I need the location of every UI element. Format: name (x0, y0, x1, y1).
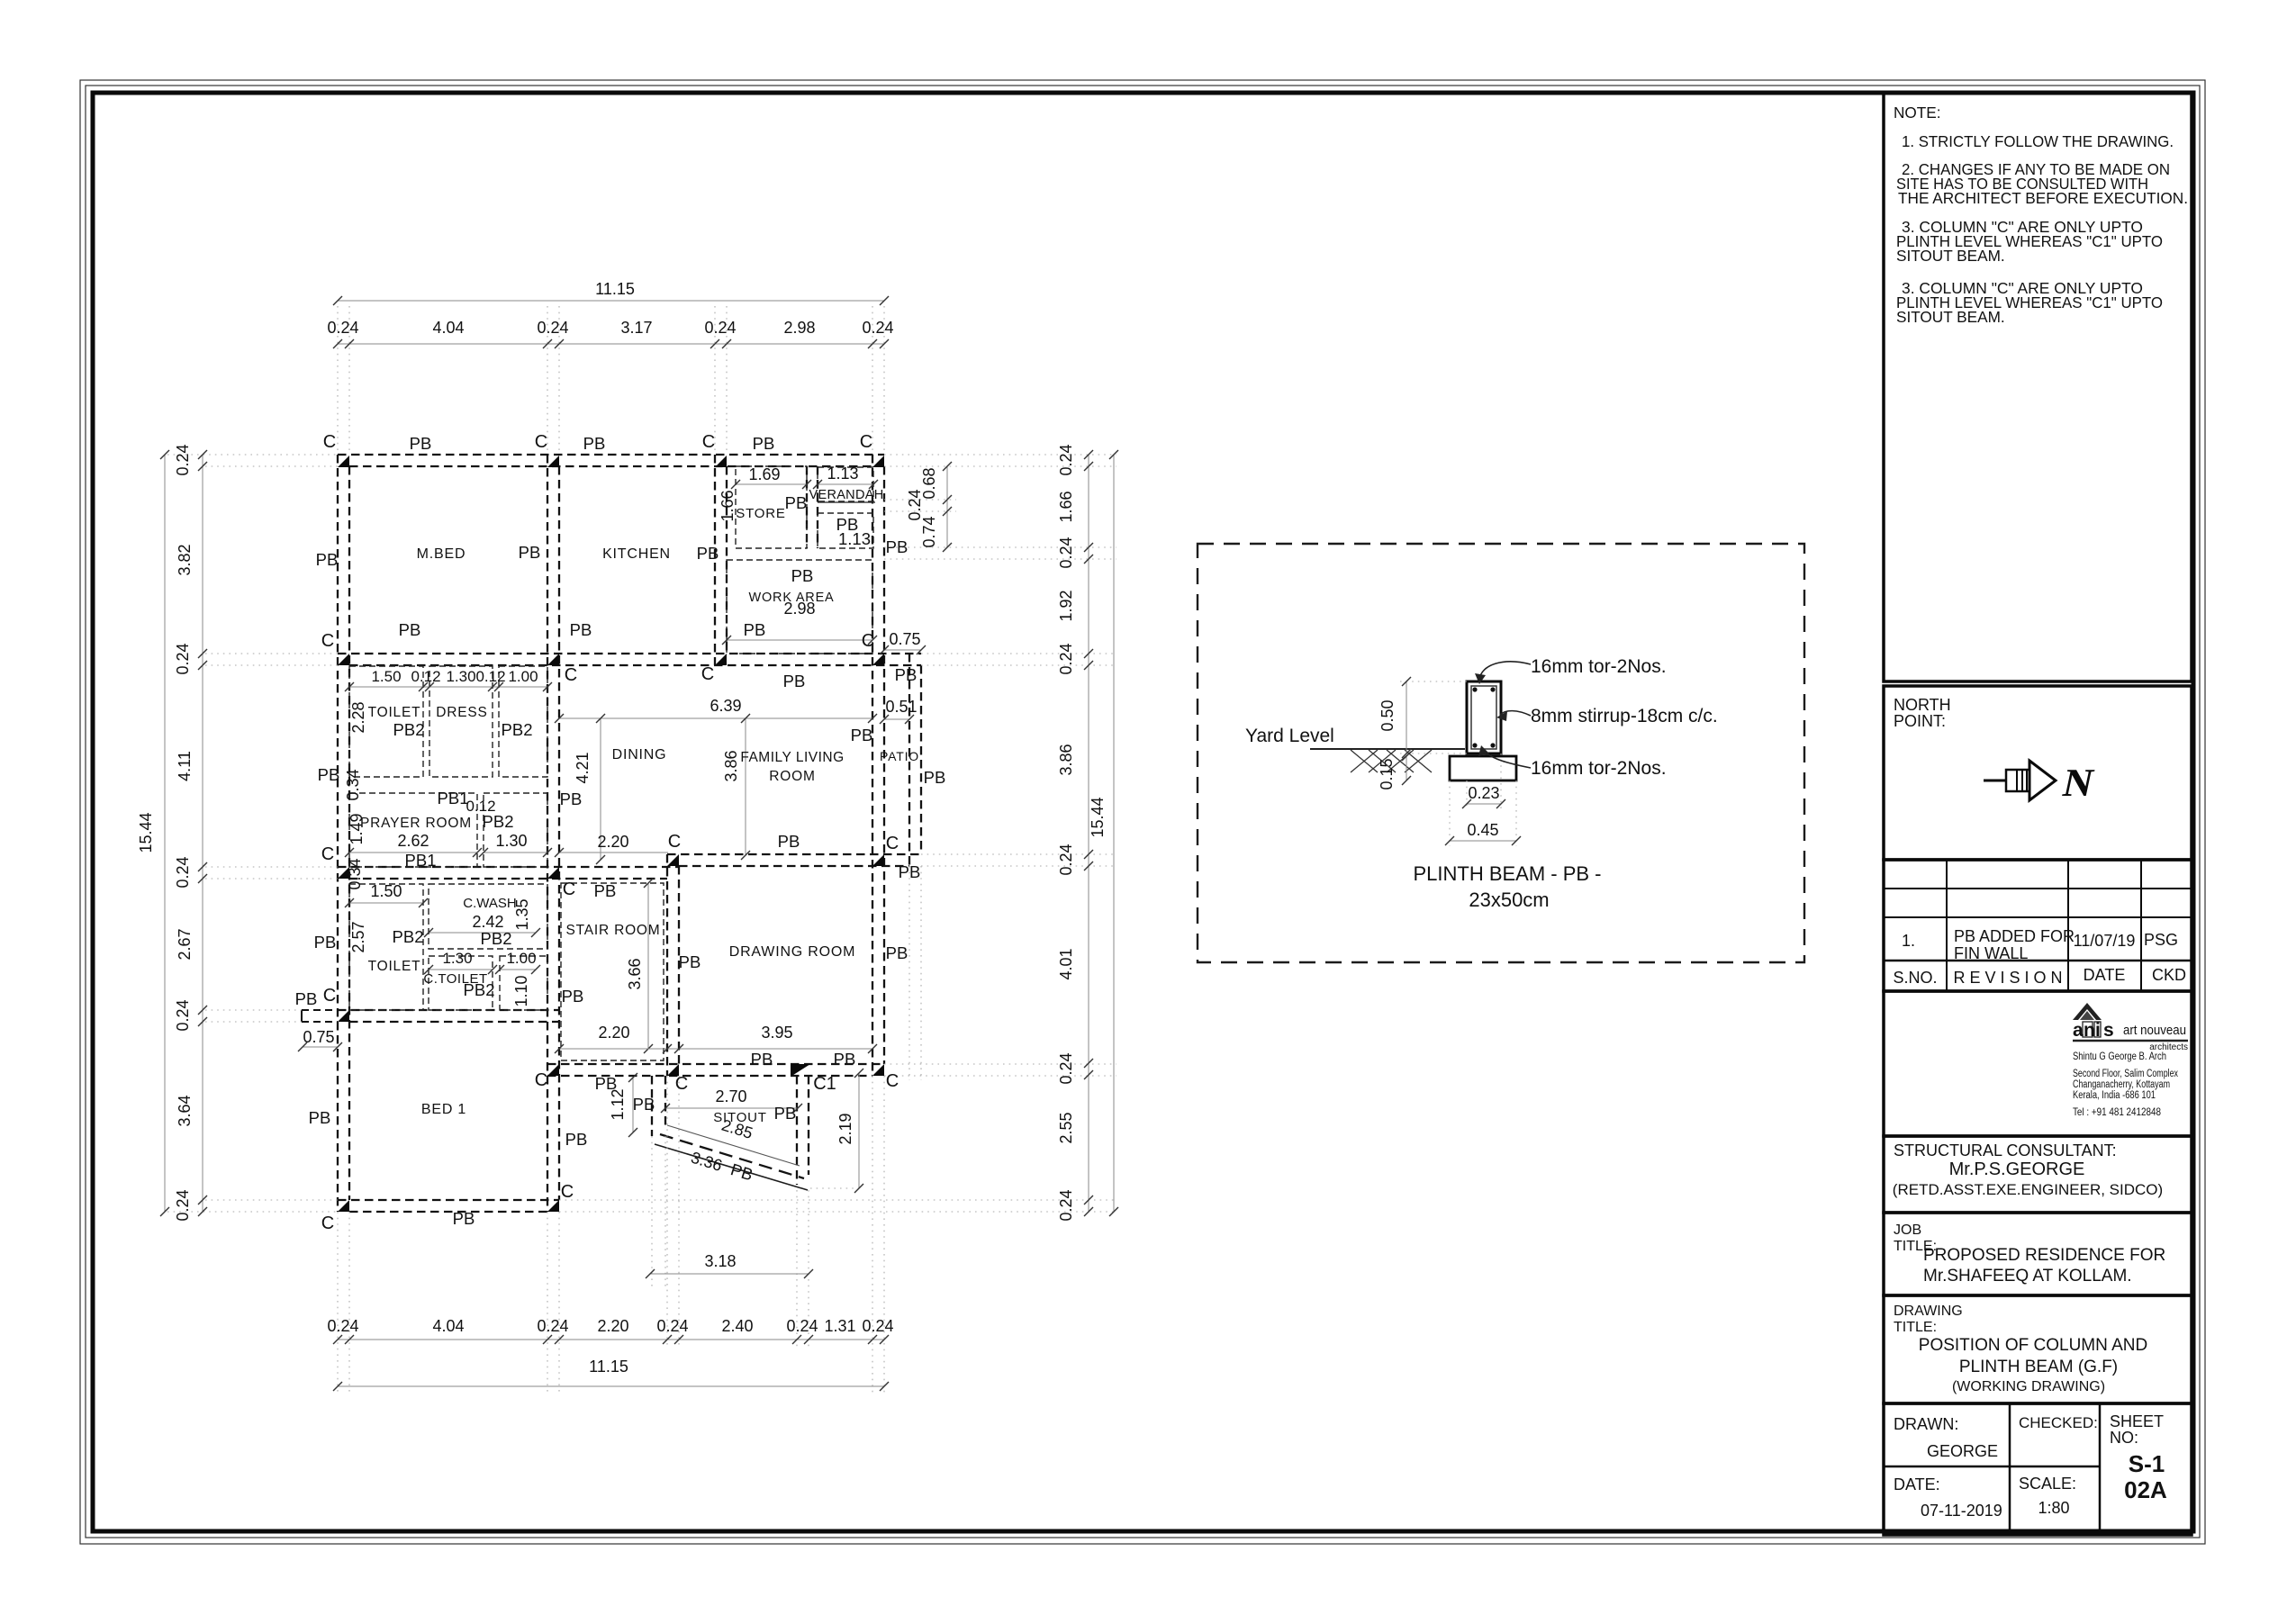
svg-text:0.75: 0.75 (303, 1028, 334, 1046)
svg-text:PB: PB (594, 881, 617, 900)
svg-text:FAMILY LIVING: FAMILY LIVING (740, 750, 844, 765)
svg-text:DRESS: DRESS (436, 705, 487, 720)
svg-text:DRAWN:: DRAWN: (1894, 1415, 1958, 1433)
column C grid B1 (547, 456, 559, 467)
svg-text:0.24: 0.24 (786, 1317, 818, 1335)
toilet2 inner box (349, 884, 423, 1010)
svg-text:PB: PB (851, 726, 873, 744)
column C grid A4 (338, 1010, 349, 1022)
grid dotted bottom wall y (205, 1199, 338, 1201)
wall left outer (337, 455, 339, 1212)
svg-text:PB: PB (410, 434, 432, 453)
svg-text:0.24: 0.24 (656, 1317, 688, 1335)
cwash inner box (429, 884, 547, 949)
leader 8mm stirrup (1500, 711, 1531, 716)
dim prayer room (349, 852, 477, 853)
svg-text:PB: PB (834, 1050, 856, 1069)
svg-text:PB: PB (895, 665, 918, 684)
svg-text:1.13: 1.13 (827, 465, 858, 483)
svg-text:15.44: 15.44 (1089, 797, 1107, 837)
logo anis roof (2073, 1003, 2102, 1020)
svg-text:C: C (321, 844, 334, 864)
dim stair 3.66 (647, 883, 649, 1049)
svg-text:1.10: 1.10 (512, 975, 530, 1006)
grid dotted patio x (908, 866, 910, 1080)
svg-text:2.42: 2.42 (472, 913, 503, 931)
svg-text:Yard Level: Yard Level (1245, 726, 1334, 746)
svg-text:0.50: 0.50 (1379, 699, 1397, 731)
svg-text:3.66: 3.66 (626, 958, 644, 989)
stair inner dashed box (561, 883, 664, 1060)
ctoilet inner box (429, 956, 493, 1010)
dim sitout 1.12 (632, 1078, 634, 1132)
svg-text:4.11: 4.11 (176, 751, 194, 781)
svg-text:C: C (535, 1070, 547, 1090)
dim work area 2.98 (727, 639, 872, 641)
svg-text:art nouveau: art nouveau (2123, 1023, 2186, 1038)
dim 0.50 beam (1400, 681, 1467, 682)
svg-text:0.23: 0.23 (1468, 784, 1499, 802)
column C grid A3 (338, 867, 349, 879)
svg-text:n: n (2084, 1020, 2095, 1041)
svg-text:Kerala, India -686 101: Kerala, India -686 101 (2073, 1090, 2156, 1101)
svg-text:C1: C1 (813, 1074, 836, 1094)
svg-text:02A: 02A (2124, 1476, 2167, 1503)
svg-text:0.24: 0.24 (1057, 844, 1075, 875)
svg-text:M.BED: M.BED (417, 546, 466, 562)
svg-text:0.24: 0.24 (174, 1189, 192, 1221)
svg-text:PB: PB (791, 566, 814, 585)
wall kitchen right vertical (714, 455, 716, 665)
svg-text:GEORGE: GEORGE (1927, 1442, 1998, 1460)
svg-text:DRAWING: DRAWING (1894, 1304, 1963, 1319)
svg-text:11.15: 11.15 (595, 280, 635, 298)
svg-text:0.24: 0.24 (1057, 1052, 1075, 1084)
leader 16mm bottom (1484, 750, 1531, 768)
column C grid C2 (715, 654, 727, 665)
svg-text:0.24: 0.24 (1057, 643, 1075, 674)
dress right small box (499, 666, 547, 777)
svg-text:0.15: 0.15 (1378, 758, 1396, 789)
svg-text:BED 1: BED 1 (421, 1102, 466, 1117)
svg-text:3.18: 3.18 (704, 1252, 736, 1270)
svg-text:C: C (702, 432, 715, 452)
dim 0.45 footing width (1449, 780, 1451, 846)
dim row2 partitions (349, 686, 547, 688)
dim verandah sub chain (946, 466, 948, 547)
svg-text:SITOUT: SITOUT (713, 1110, 767, 1125)
grid dotted stair-left x (547, 306, 548, 455)
wall bed1 bottom outer (338, 1199, 559, 1201)
svg-text:SITOUT BEAM.: SITOUT BEAM. (1896, 308, 2005, 326)
svg-text:23x50cm: 23x50cm (1469, 889, 1549, 911)
column C grid E3 (667, 854, 679, 866)
verandah top box (818, 467, 873, 501)
svg-text:0.24: 0.24 (174, 444, 192, 475)
svg-text:WORK AREA: WORK AREA (748, 591, 834, 605)
panel north box (1884, 686, 2192, 860)
svg-text:11.15: 11.15 (589, 1358, 628, 1376)
svg-text:PB2: PB2 (502, 720, 533, 739)
column C grid D1 (872, 456, 884, 467)
wall drawing-room bottom / sitout top (547, 1063, 884, 1065)
svg-text:PB: PB (309, 1108, 331, 1127)
svg-text:0.24: 0.24 (537, 1317, 568, 1335)
svg-text:PB: PB (679, 952, 701, 971)
svg-text:C: C (323, 986, 336, 1006)
svg-text:11/07/19: 11/07/19 (2074, 932, 2136, 950)
yard level line (1310, 748, 1465, 750)
svg-text:C: C (675, 1074, 688, 1094)
svg-text:Changanacherry, Kottayam: Changanacherry, Kottayam (2073, 1079, 2170, 1090)
svg-text:C: C (321, 631, 334, 651)
svg-text:C: C (886, 1071, 899, 1091)
svg-text:s: s (2103, 1020, 2114, 1041)
wall top outer (M.BED/KITCHEN/VERANDAH) (338, 454, 884, 456)
svg-text:SITOUT BEAM.: SITOUT BEAM. (1896, 247, 2005, 265)
svg-text:0.68: 0.68 (920, 467, 938, 499)
wall row2 (below M.BED/KITCHEN to PATIO) (338, 653, 921, 654)
dim cwash (429, 932, 536, 934)
svg-text:1.31: 1.31 (824, 1317, 855, 1335)
dim 3.18 sitout bottom (650, 1273, 809, 1275)
prayer room inner box (349, 793, 477, 867)
svg-text:PB2: PB2 (481, 929, 512, 948)
dim chain left (202, 455, 203, 1212)
svg-text:2.19: 2.19 (836, 1113, 854, 1144)
dim 4.21 dining (600, 718, 601, 860)
svg-text:PB: PB (633, 1095, 655, 1114)
grid dotted kitchen-right x (714, 306, 716, 455)
svg-text:4.04: 4.04 (432, 319, 464, 337)
svg-text:4.21: 4.21 (574, 752, 592, 783)
svg-text:THE ARCHITECT BEFORE EXECUTION: THE ARCHITECT BEFORE EXECUTION. (1898, 189, 2188, 207)
svg-text:2.20: 2.20 (598, 1024, 629, 1042)
svg-text:0.24: 0.24 (1057, 537, 1075, 568)
svg-text:C: C (565, 665, 577, 685)
svg-text:PB2: PB2 (464, 980, 495, 999)
svg-text:PB: PB (314, 933, 337, 952)
svg-text:PB2: PB2 (393, 927, 424, 946)
svg-text:Tel : +91 481 2412848: Tel : +91 481 2412848 (2073, 1105, 2161, 1118)
svg-text:3.95: 3.95 (761, 1024, 792, 1042)
svg-text:0.51: 0.51 (885, 698, 917, 716)
svg-text:PB: PB (785, 493, 808, 512)
svg-text:PATIO: PATIO (880, 749, 919, 763)
dim chain bottom (338, 1339, 884, 1340)
svg-text:2.57: 2.57 (349, 921, 367, 952)
svg-text:PB: PB (753, 434, 775, 453)
wall family/drawing divider (667, 853, 921, 855)
grid dotted verandah sub y (884, 499, 956, 501)
svg-text:0.75: 0.75 (889, 630, 920, 648)
svg-text:STRUCTURAL CONSULTANT:: STRUCTURAL CONSULTANT: (1894, 1141, 2117, 1159)
svg-text:0.24: 0.24 (327, 1317, 358, 1335)
svg-text:CHECKED:: CHECKED: (2019, 1414, 2098, 1431)
svg-text:16mm tor-2Nos.: 16mm tor-2Nos. (1531, 656, 1667, 677)
svg-text:TOILET: TOILET (368, 959, 421, 974)
plinth beam section outline (1467, 681, 1501, 753)
svg-text:0.24: 0.24 (1057, 1189, 1075, 1221)
wall patio right vertical (908, 654, 910, 866)
svg-text:NOTE:: NOTE: (1894, 104, 1941, 122)
svg-text:POINT:: POINT: (1894, 712, 1946, 730)
revision table frame (1884, 860, 2192, 991)
grid dotted drawing-left x bottom (666, 1076, 668, 1347)
svg-text:S.NO.: S.NO. (1893, 969, 1937, 987)
svg-text:ROOM: ROOM (769, 769, 815, 784)
svg-text:SCALE:: SCALE: (2019, 1475, 2076, 1493)
wall sitout diagonal (667, 1125, 800, 1166)
store inner dashed box (736, 466, 807, 548)
dim ctoilet (429, 969, 493, 970)
bottom table frame (1884, 1403, 2192, 1535)
svg-text:0.24: 0.24 (1057, 444, 1075, 475)
svg-text:1.13: 1.13 (838, 529, 871, 548)
svg-text:PB: PB (744, 620, 766, 639)
leader 16mm top (1479, 662, 1531, 680)
svg-text:C: C (701, 664, 714, 684)
svg-text:0.74: 0.74 (920, 516, 938, 547)
svg-text:C: C (860, 432, 872, 452)
dim 0.75 patio top (884, 649, 921, 651)
svg-text:DRAWING ROOM: DRAWING ROOM (729, 944, 856, 960)
plinth beam rebar dots (1472, 687, 1477, 691)
svg-text:Shintu G George B. Arch: Shintu G George B. Arch (2073, 1050, 2166, 1062)
column C1 sitout (791, 1064, 810, 1077)
wall mbed-kitchen / stair-left vertical (547, 455, 548, 1212)
dim chain top (338, 343, 884, 345)
svg-text:0.12: 0.12 (411, 668, 440, 685)
svg-text:1.30: 1.30 (442, 950, 472, 967)
svg-text:2.70: 2.70 (715, 1087, 746, 1105)
svg-text:JOB: JOB (1894, 1223, 1921, 1238)
svg-text:PB1: PB1 (405, 851, 437, 870)
svg-text:4.04: 4.04 (432, 1317, 464, 1335)
svg-text:CKD: CKD (2152, 966, 2186, 984)
column C grid D2 (872, 654, 884, 665)
column C grid A6 (338, 1200, 349, 1212)
svg-text:PB: PB (774, 1104, 797, 1123)
svg-text:PRAYER ROOM: PRAYER ROOM (360, 816, 472, 831)
column C grid A1 (338, 456, 349, 467)
svg-text:a: a (2073, 1020, 2084, 1041)
svg-text:S-1: S-1 (2129, 1450, 2165, 1477)
ctoilet right box (500, 956, 547, 1010)
svg-text:NORTH: NORTH (1894, 696, 1951, 714)
toilet1 inner box (349, 666, 423, 777)
revision table lines (1884, 888, 2192, 889)
svg-text:2.20: 2.20 (597, 1317, 628, 1335)
svg-text:VERANDAH: VERANDAH (809, 488, 884, 502)
soil hatch marks (1351, 750, 1378, 772)
svg-text:0.24: 0.24 (862, 319, 893, 337)
svg-text:PB: PB (778, 832, 800, 851)
wall sitout right (C1) (796, 1076, 798, 1185)
wall bump left (0.75 nib) (302, 1009, 338, 1011)
dim stair 2.20 / drawing 3.95 (559, 1048, 872, 1050)
work area inner dashed box (727, 560, 872, 654)
svg-text:0.24: 0.24 (327, 319, 358, 337)
plinth detail dashed border (1198, 544, 1804, 962)
prayer PB2 box (484, 793, 547, 867)
dim verandah 1.13 (818, 483, 873, 485)
svg-text:PB: PB (399, 620, 421, 639)
svg-text:3.17: 3.17 (620, 319, 652, 337)
wall toilet-row bottom (338, 1009, 559, 1011)
svg-text:PB: PB (783, 672, 806, 690)
svg-text:0.24: 0.24 (862, 1317, 893, 1335)
svg-text:PB: PB (924, 768, 946, 787)
svg-text:SHEET: SHEET (2110, 1412, 2164, 1430)
drawing title box (1884, 1295, 2192, 1403)
column C grid E5 (667, 1064, 679, 1076)
svg-text:0.45: 0.45 (1467, 821, 1498, 839)
plinth beam stirrup (1471, 686, 1496, 749)
svg-text:Mr.SHAFEEQ AT KOLLAM.: Mr.SHAFEEQ AT KOLLAM. (1923, 1267, 2132, 1286)
svg-text:PLINTH BEAM (G.F): PLINTH BEAM (G.F) (1959, 1358, 2118, 1376)
dim chain right (1088, 455, 1089, 1212)
svg-text:0.24: 0.24 (174, 999, 192, 1031)
svg-text:C: C (563, 880, 575, 899)
svg-text:PB: PB (318, 765, 340, 784)
svg-text:PB: PB (565, 1130, 588, 1149)
svg-text:1.69: 1.69 (748, 465, 780, 483)
svg-text:1.30: 1.30 (446, 668, 475, 685)
dim 0.15 footing (1406, 756, 1407, 780)
wall right outer vertical (872, 455, 873, 1076)
wall drawing-room left vertical (666, 854, 668, 1076)
dim total 11.15 top (338, 300, 884, 302)
plinth footing (1450, 756, 1516, 780)
svg-text:C: C (321, 1213, 334, 1233)
column C grid B5 (547, 1064, 559, 1076)
grid dotted row2 y (205, 653, 338, 654)
svg-text:1.50: 1.50 (371, 668, 401, 685)
dim 2.20 dining bottom (559, 852, 668, 853)
svg-text:C.WASH: C.WASH (463, 896, 516, 911)
grid dotted top wall y (167, 454, 338, 456)
svg-text:0.24: 0.24 (174, 856, 192, 888)
svg-text:NO:: NO: (2110, 1429, 2138, 1447)
svg-text:PB: PB (886, 537, 908, 556)
svg-text:PB: PB (886, 943, 908, 962)
svg-text:Second Floor, Salim Complex: Second Floor, Salim Complex (2073, 1069, 2178, 1079)
grid dotted left outer x (337, 306, 339, 455)
svg-text:DINING: DINING (612, 747, 667, 762)
column C grid B6 (547, 1200, 559, 1212)
svg-text:PB: PB (295, 989, 318, 1008)
svg-text:1.92: 1.92 (1057, 590, 1075, 621)
svg-text:(RETD.ASST.EXE.ENGINEER, SIDCO: (RETD.ASST.EXE.ENGINEER, SIDCO) (1893, 1181, 2163, 1198)
wall stair-row top (left block) (338, 866, 679, 868)
grid dotted stair-row y (205, 866, 338, 868)
dim total 11.15 bottom (338, 1385, 884, 1387)
svg-text:C: C (886, 834, 899, 853)
column C grid B3 (547, 867, 559, 879)
svg-text:0.12: 0.12 (475, 668, 505, 685)
svg-text:C: C (561, 1182, 574, 1202)
grid dotted family-row y right (921, 853, 1116, 855)
svg-text:C: C (668, 832, 681, 852)
svg-text:PB: PB (519, 543, 541, 562)
column C grid D5 (872, 1064, 884, 1076)
dim 3.86 family (745, 718, 746, 855)
svg-text:C: C (323, 432, 336, 452)
grid dotted sitout-left x bottom (651, 1136, 653, 1287)
dim total 15.44 right (1113, 455, 1115, 1212)
svg-text:0.34: 0.34 (344, 769, 362, 800)
svg-text:3.64: 3.64 (176, 1095, 194, 1126)
svg-text:PB: PB (751, 1050, 773, 1069)
svg-text:2.98: 2.98 (783, 319, 815, 337)
svg-text:4.01: 4.01 (1057, 948, 1075, 979)
svg-text:Mr.P.S.GEORGE: Mr.P.S.GEORGE (1949, 1159, 2085, 1179)
dim 1.50 toilet2 (349, 902, 423, 904)
svg-text:PSG: PSG (2144, 931, 2178, 949)
dim 0.51 patio (884, 718, 909, 720)
dim 0.23 beam width (1466, 780, 1468, 810)
dim store 1.69 (736, 483, 807, 485)
verandah PB box (818, 513, 873, 548)
svg-text:PB: PB (583, 434, 606, 453)
svg-text:0.24: 0.24 (704, 319, 736, 337)
wall store/verandah divider (806, 466, 808, 548)
bottom table lines (2009, 1403, 2011, 1535)
svg-text:1.00: 1.00 (506, 950, 536, 967)
svg-text:C: C (862, 631, 874, 651)
dim sitout 2.70 (665, 1107, 798, 1109)
svg-text:2.20: 2.20 (597, 833, 628, 851)
wall sitout left (651, 1076, 653, 1136)
svg-text:TOILET: TOILET (368, 705, 421, 720)
svg-text:2.67: 2.67 (176, 928, 194, 960)
svg-text:PB2: PB2 (483, 812, 514, 831)
logo box (1884, 991, 2192, 1136)
svg-text:1.: 1. (1902, 932, 1915, 950)
svg-text:R E V I S I O N: R E V I S I O N (1953, 969, 2062, 987)
svg-text:PLINTH BEAM - PB -: PLINTH BEAM - PB - (1413, 862, 1601, 885)
panel note box (1884, 93, 2192, 681)
svg-text:2.28: 2.28 (349, 701, 367, 733)
svg-text:PB1: PB1 (438, 789, 469, 807)
svg-text:FIN WALL: FIN WALL (1954, 944, 2028, 962)
svg-text:8mm stirrup-18cm c/c.: 8mm stirrup-18cm c/c. (1531, 706, 1718, 726)
column C grid A2 (338, 654, 349, 665)
svg-text:KITCHEN: KITCHEN (602, 546, 671, 562)
column C grid D3 (872, 854, 884, 866)
svg-text:(WORKING DRAWING): (WORKING DRAWING) (1952, 1379, 2105, 1394)
svg-text:PB ADDED FOR: PB ADDED FOR (1954, 927, 2075, 945)
svg-text:3.86: 3.86 (722, 750, 740, 781)
svg-text:1.66: 1.66 (1057, 491, 1075, 522)
svg-text:07-11-2019: 07-11-2019 (1921, 1502, 2002, 1520)
dim sitout 2.19 (858, 1073, 860, 1188)
svg-text:TITLE:: TITLE: (1894, 1320, 1937, 1335)
svg-text:1.12: 1.12 (609, 1088, 627, 1120)
svg-text:PB: PB (570, 620, 592, 639)
svg-text:STORE: STORE (736, 506, 785, 521)
svg-text:0.24: 0.24 (537, 319, 568, 337)
svg-text:2.55: 2.55 (1057, 1112, 1075, 1143)
svg-text:PB: PB (595, 1074, 618, 1093)
grid dotted sitout-row y right (884, 1063, 1116, 1065)
structural consultant box (1884, 1136, 2192, 1213)
svg-text:6.39: 6.39 (710, 697, 741, 715)
svg-text:PB: PB (453, 1209, 475, 1228)
north symbol (1984, 780, 2006, 782)
svg-text:1.00: 1.00 (508, 668, 538, 685)
